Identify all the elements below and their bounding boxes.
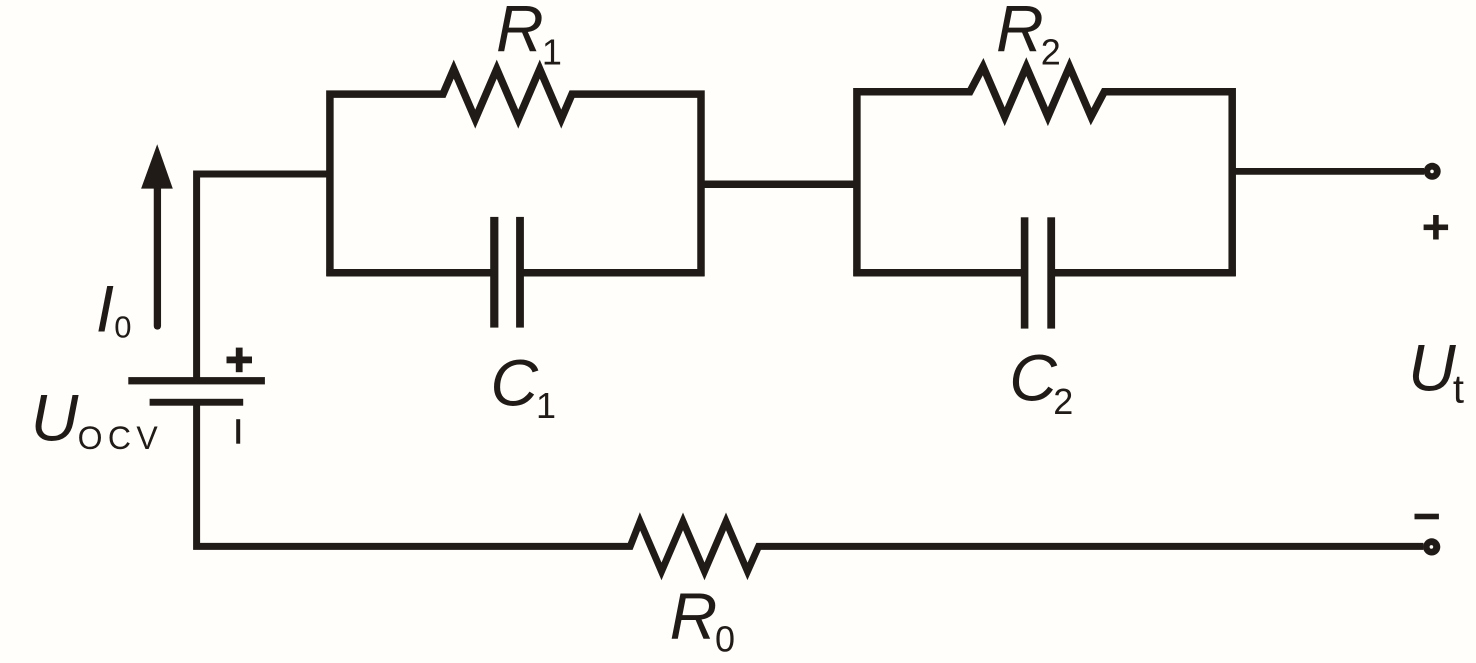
output + sign <box>1424 215 1449 240</box>
svg-text:U: U <box>1408 330 1456 404</box>
svg-text:R: R <box>996 0 1044 66</box>
battery U_OCV: long positive plate <box>128 377 265 384</box>
svg-text:U: U <box>31 381 79 455</box>
svg-text:R: R <box>670 579 718 653</box>
wire: RC2 bottom rail right segment <box>1049 269 1235 277</box>
node A: RC pair 1 loop (left edge, top rail with R1, right edge) <box>330 69 701 276</box>
svg-text:R: R <box>496 0 544 66</box>
battery U_OCV: short negative plate <box>150 399 244 406</box>
wire: RC1 bottom rail right segment <box>518 269 705 277</box>
battery polarity - mark <box>236 419 240 444</box>
svg-text:OCV: OCV <box>78 420 164 456</box>
svg-text:2: 2 <box>1041 31 1061 72</box>
svg-text:t: t <box>1453 367 1464 411</box>
svg-text:I: I <box>96 272 114 346</box>
terminal: positive output <box>1424 163 1441 180</box>
wire: RC2 bottom rail left segment <box>853 269 1026 277</box>
svg-text:1: 1 <box>542 31 562 72</box>
wire: output positive lead to terminal <box>1235 168 1424 175</box>
node B: RC pair 2 loop (left edge, top rail with R2, right edge) <box>857 67 1232 277</box>
svg-text:2: 2 <box>1053 381 1073 422</box>
wire: battery positive lead up to top-left node <box>197 174 331 379</box>
svg-text:C: C <box>1009 341 1058 415</box>
battery polarity + sign <box>227 348 253 373</box>
current arrow I0 shaft <box>154 186 161 326</box>
current arrow I0 head <box>141 144 173 188</box>
wire: middle link between RC1 and RC2 <box>701 181 857 189</box>
wire: battery negative lead down and bottom rail with R0 to terminal <box>197 403 1424 571</box>
svg-text:C: C <box>490 345 539 419</box>
svg-text:1: 1 <box>536 385 556 426</box>
capacitor C1 plates <box>490 217 498 328</box>
svg-text:0: 0 <box>715 618 735 659</box>
svg-text:0: 0 <box>114 309 131 344</box>
terminal: negative output <box>1423 538 1440 555</box>
wire: RC1 bottom rail left segment <box>326 269 496 277</box>
capacitor C2 plates <box>1021 217 1029 328</box>
output - sign <box>1415 514 1439 520</box>
